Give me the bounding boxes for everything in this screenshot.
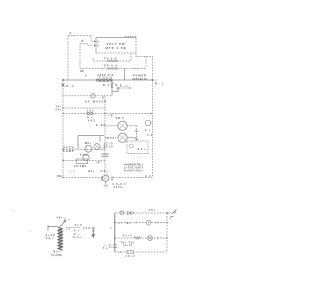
svg-text:m0+: m0+: [88, 171, 95, 173]
svg-text:c+: c+: [119, 223, 124, 225]
svg-text:+B: +B: [100, 148, 105, 150]
svg-text:TV.5-C: TV.5-C: [104, 56, 117, 60]
svg-text:D: D: [82, 39, 84, 43]
svg-text:C0-0.0: C0-0.0: [104, 64, 118, 68]
svg-text:F+: F+: [145, 129, 151, 132]
svg-text:40+: 40+: [57, 217, 64, 220]
svg-text:R-1: R-1: [155, 82, 164, 86]
svg-text:0+0+: 0+0+: [73, 237, 82, 239]
svg-text:INTERL0C: INTERL0C: [133, 77, 148, 81]
svg-text:4X2: 4X2: [88, 119, 96, 122]
svg-text:(0+0): (0+0): [123, 245, 132, 247]
svg-text:T-C0-0: T-C0-0: [99, 76, 113, 79]
svg-text:0+: 0+: [74, 231, 80, 233]
svg-text:TM-0: TM-0: [116, 117, 125, 120]
svg-text:1X+: 1X+: [149, 209, 156, 212]
svg-text:A0-FM0: A0-FM0: [74, 165, 87, 168]
svg-text:E+: E+: [127, 223, 132, 225]
svg-text:R-4: R-4: [103, 84, 110, 87]
svg-text:A+: A+: [74, 233, 80, 236]
svg-text:MTR 4.5B: MTR 4.5B: [106, 46, 126, 50]
svg-text:+C.: +C.: [96, 161, 102, 164]
svg-text:h0: h0: [147, 135, 153, 137]
svg-text:+L: +L: [70, 171, 76, 173]
svg-text:TA+: TA+: [56, 105, 63, 108]
svg-text:DC: DC: [81, 70, 85, 73]
svg-text:10A: 10A: [83, 227, 90, 230]
svg-text:E0: E0: [146, 175, 152, 178]
svg-text:E-TX: E-TX: [96, 124, 105, 127]
svg-text:LAMP: LAMP: [64, 149, 74, 153]
svg-text:Fc+0: Fc+0: [123, 234, 133, 237]
svg-text:A+000 00V+: A+000 00V+: [124, 169, 143, 173]
svg-text:5A+: 5A+: [56, 108, 63, 111]
svg-text:(5+0W): (5+0W): [51, 254, 62, 257]
svg-text:Tt+0: Tt+0: [75, 224, 83, 227]
svg-text:1X2: 1X2: [87, 109, 95, 112]
svg-text:+B: +B: [108, 114, 113, 117]
svg-text:TA+ TX+: TA+ TX+: [121, 241, 136, 244]
svg-text:MF+: MF+: [85, 142, 92, 145]
svg-text:TX0: TX0: [80, 155, 88, 157]
svg-text:TR+: TR+: [46, 237, 54, 240]
svg-text:1M+: 1M+: [57, 175, 64, 178]
svg-text:A: A: [85, 74, 87, 77]
svg-text:A: A: [70, 31, 72, 35]
svg-text:Fc+: Fc+: [107, 137, 115, 140]
svg-text:2000.: 2000.: [114, 186, 124, 189]
svg-text:R-4: R-4: [67, 84, 75, 88]
svg-text:E+: E+: [65, 219, 71, 221]
svg-text:32+: 32+: [138, 147, 146, 151]
svg-text:h+v: h+v: [121, 86, 129, 88]
